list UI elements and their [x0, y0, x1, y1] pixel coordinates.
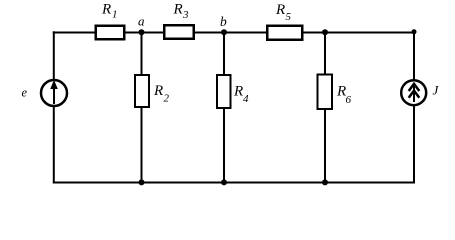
- svg-text:J: J: [433, 83, 440, 98]
- svg-text:R: R: [275, 2, 285, 18]
- svg-text:6: 6: [346, 94, 352, 106]
- svg-text:R: R: [233, 84, 243, 100]
- svg-text:5: 5: [286, 11, 292, 23]
- svg-text:R: R: [153, 83, 163, 99]
- svg-text:R: R: [101, 2, 111, 18]
- svg-text:R: R: [173, 2, 183, 18]
- svg-text:1: 1: [112, 9, 118, 21]
- svg-text:e: e: [22, 86, 28, 100]
- svg-text:b: b: [220, 14, 227, 29]
- svg-text:2: 2: [164, 92, 170, 104]
- svg-text:3: 3: [182, 9, 189, 21]
- svg-text:4: 4: [243, 93, 249, 105]
- svg-text:a: a: [138, 14, 145, 29]
